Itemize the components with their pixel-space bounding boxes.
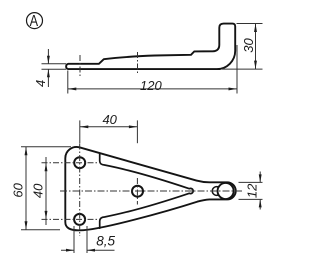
svg-text:4: 4 (33, 80, 48, 87)
svg-text:8,5: 8,5 (96, 234, 115, 249)
svg-text:12: 12 (244, 183, 259, 198)
svg-text:A: A (30, 13, 39, 30)
svg-text:120: 120 (140, 78, 162, 93)
svg-text:40: 40 (102, 112, 117, 127)
svg-text:60: 60 (11, 182, 26, 197)
svg-text:30: 30 (241, 38, 256, 53)
svg-text:40: 40 (30, 183, 45, 198)
